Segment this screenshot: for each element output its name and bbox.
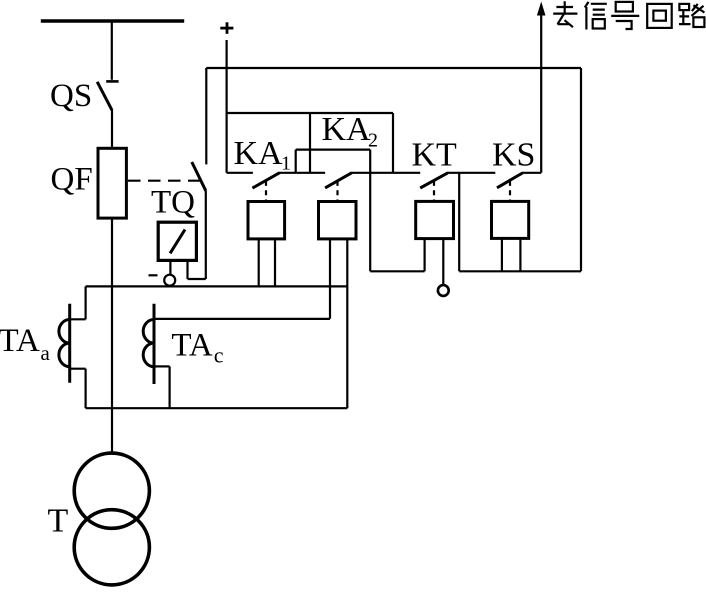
svg-text:TQ: TQ [151, 185, 195, 221]
svg-text:2: 2 [368, 129, 378, 151]
svg-text:QS: QS [50, 78, 92, 114]
svg-text:1: 1 [281, 153, 291, 175]
svg-text:TA: TA [0, 323, 40, 359]
svg-text:a: a [41, 341, 51, 365]
svg-text:QF: QF [51, 162, 93, 198]
svg-text:KA: KA [322, 111, 372, 148]
svg-text:KS: KS [492, 137, 535, 174]
svg-text:KA: KA [234, 135, 284, 172]
svg-text:KT: KT [412, 137, 458, 174]
svg-text:TA: TA [171, 327, 213, 363]
svg-text:c: c [214, 343, 224, 368]
svg-text:T: T [48, 503, 69, 540]
